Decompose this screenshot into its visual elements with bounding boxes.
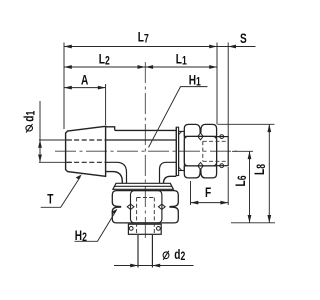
dim L2 L1 line <box>64 66 217 68</box>
thread bore hidden line bottom <box>67 161 106 163</box>
arrow S right <box>228 45 236 49</box>
branch flare washer <box>113 183 173 189</box>
F ext left <box>190 181 192 205</box>
svg-text:F: F <box>205 185 211 201</box>
body hex outline top <box>115 129 177 131</box>
hidden tube right: bottom <box>203 160 228 162</box>
H1 leader <box>149 87 208 148</box>
arrow L1 right <box>209 65 217 69</box>
svg-text:L8: L8 <box>252 164 269 175</box>
dim L6 line <box>249 151 251 223</box>
svg-text:d1: d1 <box>21 110 38 121</box>
hex edge line lower left w/ corner into branch <box>106 162 127 183</box>
arrow A left <box>64 86 72 90</box>
arrow F left <box>191 201 199 205</box>
right nut diamond top <box>198 133 203 140</box>
band B chamfer nicks <box>179 131 182 170</box>
svg-text:L7: L7 <box>138 29 149 46</box>
L6 top ext <box>232 150 253 152</box>
arrow L6 up <box>248 151 252 159</box>
hidden tube bottom: left <box>136 198 138 234</box>
svg-text:L1: L1 <box>176 51 187 68</box>
hex edge line upper <box>106 139 177 141</box>
arrow A right <box>98 86 106 90</box>
hex edge line lower right w/ corner into branch <box>160 162 177 183</box>
svg-text:d2: d2 <box>174 247 185 264</box>
ext line A right <box>105 84 107 125</box>
arrow L2 right <box>138 65 146 69</box>
arrow L8 up <box>267 124 271 132</box>
svg-text:H2: H2 <box>75 228 87 245</box>
arrow L6 down <box>248 215 252 223</box>
L8 top ext <box>218 123 275 125</box>
bottom sleeve circle left <box>129 227 133 231</box>
right release sleeve <box>217 137 229 166</box>
bottom sleeve circle right <box>157 227 161 231</box>
thread bore hidden line top <box>67 139 106 141</box>
arrow d2 right outside <box>152 264 160 268</box>
hidden tube bottom: right <box>153 198 155 234</box>
arrow d1 down <box>38 155 42 163</box>
right nut diamond bottom <box>198 163 203 170</box>
arrow F right <box>220 201 228 205</box>
dim phi d2 line <box>114 265 194 267</box>
phi d1 dim line <box>39 101 41 162</box>
ring band A before right nut <box>176 127 178 175</box>
dim L8 line <box>268 124 270 223</box>
horizontal centerline <box>55 150 237 152</box>
T leader <box>41 177 81 208</box>
arrow L2 left <box>64 65 72 69</box>
ring band B before right nut <box>179 131 185 170</box>
svg-text:L6: L6 <box>233 175 250 186</box>
arrowheads <box>38 45 271 268</box>
hidden tube right: top <box>203 140 228 142</box>
arrow L1 left <box>145 65 153 69</box>
ext line x=228.2 lower <box>227 167 229 205</box>
T leader arrowhead <box>76 174 82 179</box>
svg-text:A: A <box>81 72 89 88</box>
phi d1 ext top <box>39 139 72 141</box>
phi d2 ext right <box>151 235 153 268</box>
male taper thread T outline <box>66 126 106 176</box>
phi symbol of d2 <box>163 251 169 260</box>
body right end <box>175 127 177 175</box>
ext line left x=64 <box>63 43 65 130</box>
leaders <box>41 87 208 242</box>
hidden tube bottom: end <box>137 197 155 199</box>
L6 L8 bottom ext <box>231 222 275 224</box>
svg-text:H1: H1 <box>189 72 201 89</box>
ext line x=228.2 <box>227 43 229 137</box>
dim S tail <box>217 46 256 48</box>
svg-text:T: T <box>47 191 54 207</box>
arrow L7 right / S left <box>209 45 217 49</box>
body bottom edge right + fillet <box>164 176 177 183</box>
branch vertical centerline <box>144 62 146 241</box>
dim A line <box>64 87 106 89</box>
svg-text:L2: L2 <box>99 51 110 68</box>
sleeve circle top <box>220 135 224 139</box>
ext line x=217 <box>216 43 218 125</box>
flare mid line <box>114 185 172 187</box>
body bottom edge left + elbow outer fillet <box>106 172 123 184</box>
H2 nut diamond left <box>127 204 134 209</box>
arrow L7 left <box>64 45 72 49</box>
phi d1 ext bottom <box>39 161 72 163</box>
H2 leader <box>75 210 117 241</box>
hidden tube right: end <box>202 141 204 161</box>
svg-text:S: S <box>240 31 247 47</box>
sleeve circle bottom <box>220 164 224 168</box>
arrow d1 up <box>38 140 42 148</box>
arrow L8 down <box>267 215 271 223</box>
collar top edge <box>106 127 115 131</box>
H2 nut diamond right <box>158 204 165 209</box>
right nut hex <box>184 124 216 177</box>
H2 leader arrowhead <box>111 209 117 214</box>
dim F line <box>191 202 229 204</box>
bottom release sleeve <box>128 224 161 234</box>
H2 nut hex <box>112 191 178 223</box>
phi d2 ext left <box>137 235 139 268</box>
arrow d2 left outside <box>130 264 138 268</box>
dim L7 line <box>64 46 217 48</box>
phi symbol of d1 <box>26 124 33 133</box>
